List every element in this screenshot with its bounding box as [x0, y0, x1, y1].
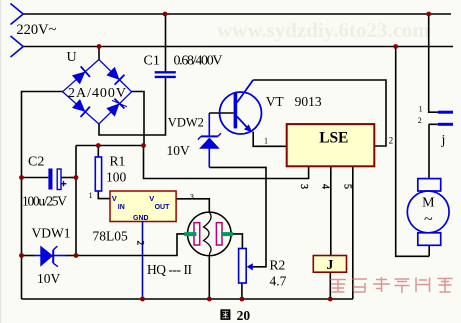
resistor R1 — [95, 157, 101, 191]
watermark bottom red (CJK strokes) — [330, 277, 453, 293]
transistor VT — [220, 80, 262, 134]
wire node to sensor heater left — [76, 234, 188, 256]
node rail L2 / bridge top — [97, 44, 102, 49]
svg-text:2: 2 — [135, 241, 145, 246]
wire AC rail L2 — [22, 46, 453, 48]
svg-text:10V: 10V — [37, 271, 61, 286]
node VDW1 / column — [74, 253, 79, 258]
svg-text:IN: IN — [118, 204, 125, 211]
svg-text:100: 100 — [106, 170, 127, 185]
relay coil J box — [313, 256, 346, 273]
wire DC+ node line — [76, 145, 144, 147]
svg-text:V: V — [149, 194, 154, 203]
bridge diode D-bottomright — [106, 96, 127, 117]
wire sensor heater right to R2 top — [231, 234, 242, 249]
node rail L2 / motor branch — [393, 44, 398, 49]
wire LSE pin3 to DC+ node — [144, 146, 309, 179]
svg-text:2: 2 — [389, 135, 394, 145]
svg-text:C2: C2 — [28, 155, 44, 170]
svg-text:3: 3 — [298, 184, 309, 189]
svg-text:4: 4 — [320, 184, 331, 189]
caption 图 glyph — [220, 309, 230, 320]
AC input arrow L1 — [11, 4, 24, 25]
wire LSE pin5 to bus — [352, 166, 354, 299]
wire motor bottom lead — [428, 245, 430, 256]
svg-text:4.7: 4.7 — [270, 274, 287, 289]
AC input arrow L2 — [11, 36, 24, 57]
motor M — [407, 179, 449, 246]
svg-text:M: M — [422, 196, 435, 211]
node bus / GND lead — [140, 297, 145, 302]
wire C2 left lead — [22, 177, 49, 179]
svg-text:www.sydzdiy.6to23.com: www.sydzdiy.6to23.com — [217, 18, 430, 42]
svg-text:V: V — [112, 194, 117, 203]
svg-text:HQ --- II: HQ --- II — [147, 262, 193, 277]
wire motor loop to rail L2 — [396, 47, 430, 257]
svg-text:78L05: 78L05 — [93, 229, 128, 244]
node DC+ / LSE supply — [141, 143, 146, 148]
svg-text:R2: R2 — [270, 258, 286, 273]
wire R2 wiper to VDW2 anode — [209, 167, 266, 266]
wire relay J to bus — [329, 272, 331, 299]
svg-text:R1: R1 — [110, 154, 126, 169]
svg-text:5: 5 — [342, 184, 353, 189]
wire VDW1 right lead — [66, 255, 76, 257]
node DC+ / R1 — [96, 143, 101, 148]
wire VT base — [209, 112, 233, 114]
wire bridge bottom vertex to C1 — [99, 77, 166, 135]
svg-text:1: 1 — [264, 137, 268, 146]
svg-text:U: U — [67, 50, 77, 65]
wire R1 top lead — [97, 146, 99, 158]
capacitor C1 — [155, 72, 176, 77]
svg-text:J: J — [326, 258, 333, 273]
wire bottom bus — [22, 298, 354, 300]
wire 78L05 VOUT to sensor top — [176, 199, 209, 212]
wire R1 bottom lead to 78L05 VIN — [98, 191, 110, 199]
wire C2/VDW1 column — [75, 146, 77, 256]
svg-text:VT: VT — [266, 94, 285, 109]
left edge artifact — [0, 0, 1, 323]
svg-text:GND: GND — [133, 215, 149, 222]
IC LSE box — [287, 124, 375, 166]
78L05 GND lead wire — [142, 222, 144, 300]
svg-text:100u/25V: 100u/25V — [22, 194, 67, 209]
bridge rectifier U diamond — [63, 60, 132, 125]
svg-text:9013: 9013 — [295, 94, 322, 109]
capacitor C2 electrolytic — [48, 169, 66, 190]
wire contact j bottom stub to motor — [429, 124, 438, 178]
wire sensor bottom to bus — [208, 256, 210, 299]
wire bridge right vertex to DC+ node — [132, 92, 145, 146]
svg-text:2: 2 — [418, 116, 422, 125]
svg-text:3: 3 — [190, 191, 194, 201]
svg-text:LSE: LSE — [319, 130, 348, 147]
bridge diode D-bottomleft — [72, 99, 90, 117]
zener VDW2 — [198, 113, 221, 167]
node bus / sensor — [207, 297, 212, 302]
svg-text:1: 1 — [89, 191, 93, 200]
wire bridge top lead — [98, 47, 100, 60]
node bus / relay J — [328, 297, 333, 302]
svg-text:VDW2: VDW2 — [168, 116, 204, 130]
wire VDW1 left lead — [22, 255, 35, 257]
svg-text:20: 20 — [237, 308, 251, 323]
svg-text:VDW1: VDW1 — [32, 226, 71, 241]
wire R2 bottom lead — [241, 283, 243, 299]
svg-text:OUT: OUT — [155, 204, 171, 211]
svg-text:10V: 10V — [167, 143, 191, 158]
svg-text:0.68/400V: 0.68/400V — [174, 54, 223, 69]
node left bus / C2 — [19, 175, 24, 180]
potentiometer R2 — [239, 249, 247, 284]
R2 wiper arrow — [247, 263, 253, 270]
svg-text:2A/400V: 2A/400V — [68, 86, 126, 101]
node C2 / column — [74, 175, 79, 180]
svg-text:~: ~ — [424, 211, 433, 228]
node rail L1 / contact j branch — [426, 12, 431, 17]
wire C1 top lead — [165, 14, 167, 72]
svg-text:C1: C1 — [144, 54, 160, 69]
wire LSE pin4 to relay J — [330, 166, 332, 255]
wire bridge left vertex to left bus — [22, 92, 64, 300]
bridge diode D-topright — [106, 66, 124, 84]
node left bus / VDW1 — [19, 253, 24, 258]
svg-text:220V~: 220V~ — [16, 22, 56, 38]
wire contact j top branch from rail L1 — [429, 14, 438, 112]
wire C2 right lead — [61, 177, 76, 179]
wire AC rail L1 — [22, 13, 451, 15]
node rail L1 / C1 — [163, 12, 168, 17]
relay contact j — [438, 112, 453, 124]
zener VDW1 — [33, 246, 67, 267]
svg-text:j: j — [441, 133, 446, 148]
wire VT emitter to LSE pin1 — [253, 132, 287, 147]
regulator 78L05 box — [110, 191, 176, 222]
gas sensor HQ-II — [184, 212, 233, 256]
bridge diode D-topleft — [72, 66, 90, 84]
svg-text:1: 1 — [419, 105, 423, 114]
wire VT collector to LSE pin2 — [253, 80, 386, 146]
node bus / R2 — [240, 297, 245, 302]
